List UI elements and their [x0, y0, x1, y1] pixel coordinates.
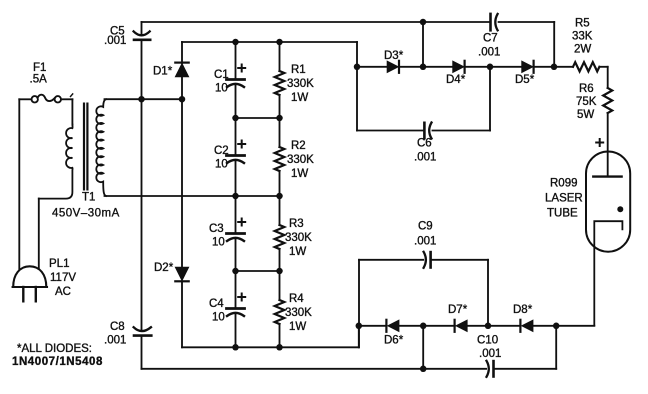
wire D4 cathode to D5 anode — [465, 66, 522, 68]
svg-text:R1: R1 — [291, 64, 306, 76]
plus sign C2 — [238, 143, 245, 145]
svg-text:PL1: PL1 — [49, 258, 69, 270]
svg-text:1W: 1W — [289, 246, 306, 258]
diode D7 — [454, 320, 456, 332]
svg-text:10: 10 — [215, 159, 228, 171]
capacitor C3 — [227, 232, 245, 235]
capacitor C1 — [227, 78, 245, 81]
svg-text:R4: R4 — [289, 293, 304, 305]
wire D6 cathode segment — [359, 325, 387, 327]
wire C5 column upper — [141, 22, 143, 35]
junction cap ladder — [232, 115, 239, 122]
svg-text:.001: .001 — [478, 47, 500, 59]
wire R1 bottom lead — [279, 95, 281, 118]
wire fuse input segment — [19, 98, 31, 100]
wire R4 bottom lead — [279, 324, 281, 347]
wire top inner rail — [182, 41, 357, 43]
svg-text:.5A: .5A — [30, 74, 48, 86]
junction top rail / D3-D4 riser — [420, 19, 427, 26]
svg-text:C6: C6 — [417, 138, 432, 150]
wire AC hot lead (left vertical to plug) — [18, 99, 20, 269]
svg-text:C4: C4 — [209, 298, 224, 310]
wire C3 bottom lead — [235, 239, 237, 272]
resistor R6 — [603, 88, 612, 113]
junction D3-D4 riser — [420, 64, 427, 71]
capacitor C6 — [423, 123, 426, 138]
junction D4-D5 / C6 drop — [487, 64, 494, 71]
wire rail C3-C4 — [236, 270, 280, 272]
wire C4 bottom lead — [235, 314, 237, 348]
svg-text:117V: 117V — [50, 272, 76, 284]
svg-text:1W: 1W — [289, 321, 306, 333]
svg-text:T1: T1 — [82, 192, 95, 204]
wire middle rail from secondary — [105, 195, 280, 197]
svg-text:R2: R2 — [291, 140, 306, 152]
junction resistor ladder — [276, 39, 283, 46]
wire R3 bottom lead — [279, 249, 281, 271]
svg-text:.001: .001 — [414, 152, 436, 164]
wire R5 to R6 corner — [599, 66, 607, 68]
diode D3 — [387, 61, 398, 72]
svg-text:1W: 1W — [291, 168, 308, 180]
wire C9 left segment — [359, 259, 423, 261]
svg-text:R5: R5 — [575, 18, 590, 30]
wire C3 top lead — [235, 196, 237, 233]
junction D7-D8 / C9 riser — [485, 323, 492, 330]
junction D6-D7 / C10 drop — [420, 323, 427, 330]
wire C9 right segment — [432, 259, 488, 261]
fuse F1 — [32, 96, 38, 102]
wire D1 cathode to top inner rail — [181, 42, 183, 63]
plug PL1 — [13, 266, 46, 287]
svg-text:.001: .001 — [104, 335, 126, 347]
svg-text:33K: 33K — [572, 31, 593, 43]
wire D8 anode to cathode return — [533, 325, 594, 327]
svg-text:D5*: D5* — [515, 74, 535, 86]
svg-text:TUBE: TUBE — [547, 208, 578, 220]
junction secondary-top / C5 column — [138, 96, 145, 103]
wire primary return to plug — [38, 199, 40, 268]
svg-text:R6: R6 — [579, 83, 594, 95]
diode D4 — [453, 61, 464, 72]
junction HV output node — [551, 64, 558, 71]
svg-text:D7*: D7* — [448, 304, 468, 316]
svg-text:1N4007/1N5408: 1N4007/1N5408 — [12, 356, 103, 368]
wire C5-C8 column middle — [141, 41, 143, 331]
plus sign tube anode — [596, 142, 603, 144]
wire rail C1-C2 — [236, 117, 280, 119]
resistor R3 — [275, 225, 285, 249]
svg-text:450V–30mA: 450V–30mA — [52, 208, 120, 220]
wire C9 right riser — [487, 260, 489, 326]
laser tube cathode — [594, 221, 622, 325]
svg-text:LASER: LASER — [545, 193, 583, 205]
wire bottom rail jog up — [358, 326, 360, 348]
capacitor C4 — [227, 307, 245, 310]
junction secondary-top / D1-D2 — [179, 96, 186, 103]
svg-text:75K: 75K — [576, 96, 597, 108]
laser tube getter dot — [617, 206, 623, 212]
wire bottommost rail left of C10 — [142, 368, 487, 370]
junction resistor ladder — [276, 115, 283, 122]
wire C6 right segment — [433, 130, 491, 132]
wire C4 top lead — [235, 271, 237, 308]
svg-text:.001: .001 — [414, 236, 436, 248]
plus sign C1 — [238, 67, 245, 69]
wire drop to bottom rail — [422, 326, 424, 369]
wire top rail to D3 corner — [356, 42, 358, 131]
svg-text:330K: 330K — [287, 154, 314, 166]
junction resistor ladder — [276, 193, 283, 200]
diode D6 — [385, 320, 387, 332]
svg-text:C7: C7 — [483, 33, 498, 45]
diode D2 — [175, 267, 188, 280]
svg-text:D3*: D3* — [384, 50, 404, 62]
svg-text:5W: 5W — [577, 109, 594, 121]
wire C9 left riser — [358, 260, 360, 348]
svg-text:D6*: D6* — [384, 335, 404, 347]
wire bottom rail riser right — [555, 326, 557, 369]
svg-text:AC: AC — [55, 286, 71, 298]
wire C2 bottom lead — [235, 161, 237, 197]
wire top rail left of C7 — [142, 21, 490, 23]
diode D1 — [175, 61, 188, 63]
junction D6 output — [356, 323, 363, 330]
resistor R2 — [275, 147, 285, 171]
laser tube anode plate — [593, 175, 621, 177]
wire D2 anode to bottom inner rail — [181, 281, 183, 347]
svg-text:D1*: D1* — [153, 66, 173, 78]
svg-text:D8*: D8* — [513, 304, 533, 316]
wire top rail right of C7 — [499, 21, 555, 23]
resistor R4 — [275, 300, 285, 324]
wire C8 to bottom rail — [141, 337, 143, 369]
svg-text:D4*: D4* — [446, 74, 466, 86]
svg-text:C2: C2 — [214, 145, 229, 157]
svg-text:.001: .001 — [104, 35, 126, 47]
svg-text:10: 10 — [212, 312, 225, 324]
capacitor C5 — [134, 31, 150, 35]
svg-text:F1: F1 — [33, 62, 46, 74]
wire riser to top rail — [422, 22, 424, 67]
wire secondary top to D1 — [105, 98, 183, 100]
wire D1 anode / D2 cathode column — [181, 77, 183, 267]
wire bottom inner rail — [182, 346, 359, 348]
diode D8 — [519, 320, 521, 332]
svg-text:330K: 330K — [285, 232, 312, 244]
transformer T1 primary winding — [39, 125, 73, 199]
wire R6 to tube anode — [607, 113, 609, 177]
wire R3 top lead — [279, 196, 281, 225]
plus sign C4 — [238, 296, 245, 298]
svg-text:C3: C3 — [209, 223, 224, 235]
svg-text:330K: 330K — [285, 307, 312, 319]
transformer T1 core — [83, 104, 85, 190]
svg-text:C10: C10 — [477, 335, 498, 347]
svg-text:C9: C9 — [418, 221, 433, 233]
wire R4 top lead — [279, 271, 281, 300]
plus sign C3 — [238, 221, 245, 223]
resistor R1 — [275, 71, 285, 95]
resistor R5 — [573, 62, 599, 71]
junction D3 input — [354, 64, 361, 71]
svg-text:10: 10 — [212, 237, 225, 249]
svg-text:C8: C8 — [110, 321, 125, 333]
svg-text:2W: 2W — [574, 44, 591, 56]
wire C6 left segment — [357, 130, 423, 132]
junction cap ladder — [232, 344, 239, 351]
wire top rail drop to D5 output — [553, 22, 555, 67]
svg-text:C1: C1 — [214, 69, 229, 81]
svg-text:*ALL DIODES:: *ALL DIODES: — [17, 343, 92, 355]
svg-text:R099: R099 — [550, 178, 578, 190]
capacitor C10 — [487, 361, 489, 377]
laser tube V1 envelope — [586, 152, 630, 252]
wire D5 cathode to R5 — [534, 66, 573, 68]
diode D5 — [522, 61, 533, 72]
svg-text:.001: .001 — [479, 348, 501, 360]
junction resistor ladder — [276, 344, 283, 351]
wire C2 top lead — [235, 118, 237, 155]
transformer T1 secondary winding — [96, 99, 106, 196]
wire R1 top lead — [279, 42, 281, 71]
wire R2 bottom lead — [279, 171, 281, 196]
wire D3 cathode to D4 anode — [399, 66, 453, 68]
junction cap ladder — [232, 39, 239, 46]
capacitor C2 — [227, 154, 245, 157]
wire C1 bottom lead — [235, 85, 237, 119]
wire D3 anode — [357, 66, 387, 68]
capacitor C9 — [424, 252, 426, 268]
junction cap ladder — [232, 193, 239, 200]
svg-text:R3: R3 — [289, 218, 304, 230]
svg-text:330K: 330K — [287, 78, 314, 90]
svg-text:10: 10 — [215, 83, 228, 95]
wire drop to C6 row — [489, 67, 491, 131]
wire fuse to transformer primary — [61, 98, 72, 100]
wire D7 anode to D8 cathode — [467, 325, 520, 327]
wire C1 top lead — [235, 42, 237, 79]
svg-text:D2*: D2* — [154, 262, 174, 274]
junction bottom rail / C10 drop — [420, 366, 427, 373]
junction resistor ladder — [276, 268, 283, 275]
capacitor C8 — [134, 327, 151, 331]
wire bottommost rail right of C10 — [495, 368, 557, 370]
capacitor C7 — [489, 14, 492, 30]
wire D6 anode to D7 cathode — [399, 325, 455, 327]
wire R2 top lead — [279, 118, 281, 147]
junction cathode return node — [553, 323, 560, 330]
svg-text:1W: 1W — [291, 92, 308, 104]
junction cap ladder — [232, 268, 239, 275]
